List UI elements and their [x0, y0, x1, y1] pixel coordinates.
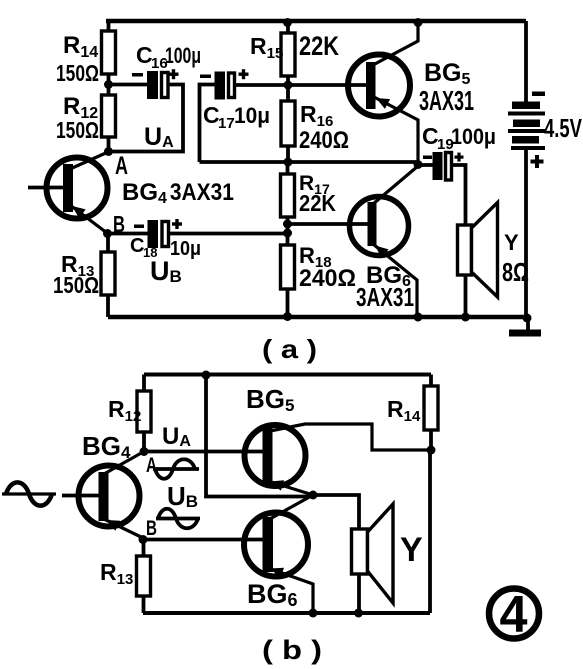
- resistor R16: [281, 101, 295, 146]
- wire node B to R13: [106, 234, 110, 254]
- svg-text:BG5: BG5: [424, 59, 471, 88]
- wire R14 top lead (b): [429, 375, 433, 388]
- node R14 bottom junction (b): [427, 446, 436, 455]
- wire BG5 emitter to output node: [374, 97, 418, 165]
- label BG5 (b): [246, 384, 294, 415]
- wire speaker bottom lead (b): [357, 573, 361, 613]
- capacitor C18: [148, 220, 169, 248]
- label 240 ohm (R18): [299, 265, 356, 292]
- transistor BG6: [350, 197, 409, 259]
- label 4.5V: [544, 113, 582, 143]
- svg-text:R14: R14: [63, 32, 98, 61]
- wire R12 bottom lead to node A (b): [142, 431, 146, 452]
- wire R18 bottom lead: [286, 288, 290, 317]
- label C18: [130, 235, 157, 260]
- node battery / ground rail junction: [523, 314, 532, 323]
- input signal sine: [2, 482, 56, 505]
- wire R12 top lead (b): [142, 375, 146, 393]
- wire BG6 emitter to ground rail: [373, 244, 417, 317]
- node output junction (b): [309, 491, 318, 500]
- label C19 minus: [423, 156, 432, 160]
- wire R14-R12 link: [107, 73, 111, 97]
- label 150 ohm (R12): [56, 117, 99, 143]
- wire bottom rail (b): [143, 611, 430, 615]
- wire BG5 collector to R14 node (b): [270, 424, 427, 450]
- node B: [103, 229, 112, 238]
- label C19 plus: [455, 153, 464, 162]
- wire R17 top lead: [286, 162, 290, 174]
- label R12 (b): [108, 396, 141, 425]
- node top rail / BG5 collector junction: [414, 18, 423, 27]
- wire BG4 collector to node A (b): [104, 452, 143, 474]
- transistor BG4 (b): [79, 466, 140, 531]
- label R16: [300, 101, 333, 130]
- wire battery top lead: [524, 21, 528, 102]
- label C16 100u: [136, 42, 201, 72]
- wire battery bottom lead: [524, 149, 528, 317]
- svg-text:17: 17: [218, 115, 235, 132]
- wire top supply rail: [106, 19, 526, 24]
- label node B: [113, 211, 125, 237]
- svg-text:A: A: [115, 152, 128, 180]
- wire output node to speaker (b): [313, 495, 359, 530]
- wire BG4 base lead (b): [62, 494, 99, 498]
- transistor BG4: [47, 158, 108, 219]
- figure number circled 4: [489, 586, 539, 644]
- label (a): [262, 334, 317, 364]
- label C16 minus: [132, 73, 143, 77]
- label node B (b): [146, 517, 157, 540]
- label 3AX31 (BG5): [419, 85, 474, 116]
- node R18 / ground rail junction: [283, 312, 292, 321]
- wire node A to BG5 base (b): [144, 450, 264, 454]
- wire C17 right lead / BG5 base: [235, 83, 368, 87]
- capacitor C17: [215, 72, 235, 100]
- node R17/R18/BG6 base junction: [283, 220, 292, 238]
- node A (b): [140, 447, 149, 456]
- capacitor C19: [433, 152, 452, 180]
- node top rail junction (b): [202, 371, 211, 380]
- label 150 ohm (R13): [53, 272, 99, 298]
- svg-text:10μ: 10μ: [234, 103, 270, 128]
- transistor BG6 (b): [244, 513, 308, 579]
- resistor R13: [101, 252, 115, 295]
- label Y: [504, 230, 519, 255]
- wire BG4 base lead: [28, 186, 64, 190]
- svg-text:3AX31: 3AX31: [356, 282, 414, 312]
- label C17 10u: [203, 102, 270, 132]
- svg-text:A: A: [146, 454, 157, 477]
- svg-text:B: B: [146, 517, 157, 540]
- label BG4 (b): [82, 431, 131, 462]
- svg-text:150Ω: 150Ω: [56, 60, 99, 86]
- capacitor C16: [147, 71, 168, 99]
- wire R17-R18 link (node of B line): [286, 216, 290, 245]
- label C16 plus: [169, 69, 179, 79]
- sine wave at node B (b): [156, 509, 200, 529]
- resistor R17: [281, 174, 295, 217]
- svg-text:UA: UA: [144, 123, 174, 151]
- battery 4.5V: [508, 102, 545, 151]
- label BG5: [424, 59, 471, 88]
- resistor R18: [281, 245, 295, 289]
- label UB: [150, 256, 182, 286]
- wire BG5 collector to top rail: [373, 22, 418, 65]
- svg-text:8Ω: 8Ω: [502, 257, 529, 287]
- wire R12 bottom lead to node A: [107, 136, 111, 152]
- svg-text:22K: 22K: [299, 190, 336, 216]
- label BG6 (b): [247, 579, 298, 610]
- wire R15-R16 link: [286, 76, 290, 101]
- label R15: [250, 33, 283, 62]
- speaker Y 8ohm: [458, 203, 498, 298]
- resistor R13 (b): [137, 556, 151, 596]
- transistor BG5: [348, 55, 410, 117]
- resistor R15: [281, 33, 295, 76]
- wire node B to R13 (b): [142, 538, 146, 557]
- svg-text:UB: UB: [167, 481, 198, 511]
- svg-text:240Ω: 240Ω: [299, 265, 356, 292]
- transistor BG5 (b): [245, 425, 306, 491]
- svg-text:B: B: [113, 211, 125, 237]
- node top rail / R15 junction: [283, 18, 292, 27]
- ground: [509, 317, 541, 337]
- label 8 ohm: [502, 257, 529, 287]
- speaker Y (b): [352, 504, 394, 603]
- svg-text:R14: R14: [387, 396, 421, 425]
- sine wave at node A (b): [153, 459, 199, 479]
- resistor R12: [102, 95, 116, 137]
- svg-text:UB: UB: [150, 256, 182, 286]
- label R14: [63, 32, 98, 61]
- node speaker / ground rail junction: [461, 313, 470, 322]
- svg-text:R13: R13: [100, 559, 133, 588]
- wire C16 left lead: [109, 83, 149, 87]
- label node A (b): [146, 454, 157, 477]
- svg-text:R16: R16: [300, 101, 333, 130]
- label 22K (R15): [299, 31, 339, 61]
- wire BG6 collector to output node (b): [268, 495, 313, 520]
- node BG6 emitter / rail junction (b): [309, 609, 318, 618]
- node R16 bottom / mid rail junction: [284, 158, 293, 167]
- wire R14 node down right side (b): [428, 450, 432, 613]
- wire node B to C18 left lead: [107, 232, 148, 236]
- label C19 100u: [422, 123, 496, 153]
- svg-text:BG5: BG5: [246, 384, 294, 415]
- svg-text:BG43AX31: BG43AX31: [122, 179, 234, 207]
- wire BG4 emitter to node B (b): [104, 519, 143, 538]
- wire R16 bottom lead: [286, 145, 290, 162]
- label UA (b): [162, 423, 191, 450]
- svg-text:240Ω: 240Ω: [299, 127, 349, 154]
- wire C19 right lead down to speaker: [452, 165, 466, 226]
- node BG6 emitter / ground rail junction: [414, 313, 423, 322]
- node speaker / rail junction (b): [354, 609, 363, 618]
- label BG6: [366, 262, 411, 290]
- resistor R12 (b): [137, 391, 151, 432]
- label R13: [61, 251, 94, 280]
- resistor R14: [102, 31, 116, 74]
- svg-text:150Ω: 150Ω: [53, 272, 99, 298]
- label (b): [262, 635, 322, 665]
- wire top rail to output node (b): [206, 375, 313, 497]
- node A: [104, 147, 113, 156]
- svg-text:Y: Y: [504, 230, 519, 255]
- wire BG4 collector to node A: [70, 152, 108, 169]
- svg-text:3AX31: 3AX31: [419, 85, 474, 116]
- wire C17 left lead down to mid rail: [200, 85, 216, 163]
- label C17 minus: [200, 75, 211, 79]
- label R18: [299, 243, 332, 271]
- label UB (b): [167, 481, 198, 511]
- label R12: [63, 93, 98, 122]
- wire node B to BG6 base (b): [143, 538, 264, 542]
- wire BG5 emitter to output node (b): [268, 481, 313, 495]
- wire R13 bottom lead: [106, 294, 110, 317]
- label Y (b): [400, 531, 423, 569]
- battery minus sign: [532, 92, 545, 97]
- label node A: [115, 152, 128, 180]
- svg-text:( b ): ( b ): [262, 635, 322, 665]
- svg-text:BG4: BG4: [82, 431, 131, 462]
- label 3AX31 (BG6): [356, 282, 414, 312]
- label 22K (R17): [299, 190, 336, 216]
- wire bottom ground rail: [108, 315, 528, 320]
- wire R15 top lead: [286, 21, 290, 33]
- node output (C19/BG5 emitter/BG6 collector): [414, 160, 423, 169]
- label BG4 3AX31: [122, 179, 234, 207]
- wire R14 bottom lead (b): [429, 430, 433, 450]
- svg-text:100μ: 100μ: [165, 43, 201, 68]
- svg-text:UA: UA: [162, 423, 191, 450]
- wire mid horizontal rail to output node: [200, 160, 419, 164]
- wire R13 bottom lead (b): [142, 595, 146, 613]
- svg-text:22K: 22K: [299, 31, 339, 61]
- wire BG6 base: [288, 222, 370, 226]
- label 240 ohm (R16): [299, 127, 349, 154]
- label C18 minus: [134, 225, 144, 229]
- resistor R14 (b): [424, 386, 438, 430]
- svg-text:R15: R15: [250, 33, 283, 62]
- wire BG6 emitter to bottom rail (b): [268, 568, 313, 613]
- node R14/R12/C16 junction: [104, 80, 113, 89]
- wire BG4 emitter to node B: [70, 205, 107, 233]
- label C18 plus: [172, 219, 182, 229]
- node R15/R16/BG5 base junction: [284, 81, 293, 90]
- svg-text:150Ω: 150Ω: [56, 117, 99, 143]
- wire C19 left lead: [418, 163, 433, 167]
- svg-text:4.5V: 4.5V: [544, 113, 582, 143]
- label 150 ohm (R14): [56, 60, 99, 86]
- wire C18 right lead to BG6 base node: [170, 232, 288, 236]
- node B (b): [139, 535, 148, 544]
- wire node A to C16 (UA loop): [109, 85, 184, 152]
- label R14 (b): [387, 396, 421, 425]
- svg-text:10μ: 10μ: [170, 238, 201, 260]
- svg-text:4: 4: [500, 586, 528, 644]
- svg-text:BG6: BG6: [247, 579, 298, 610]
- wire BG6 collector to output node: [373, 166, 418, 204]
- wire speaker to ground rail: [464, 274, 468, 317]
- label UA: [144, 123, 174, 151]
- svg-text:Y: Y: [400, 531, 423, 569]
- svg-text:100μ: 100μ: [451, 124, 496, 149]
- label 10u (C18): [170, 238, 201, 260]
- label R13 (b): [100, 559, 133, 588]
- battery plus sign: [531, 155, 544, 168]
- wire top rail (b): [144, 373, 431, 377]
- wire R14 top lead: [107, 19, 111, 32]
- label R17: [299, 172, 330, 197]
- label C17 plus: [239, 69, 249, 79]
- svg-text:( a ): ( a ): [262, 334, 317, 364]
